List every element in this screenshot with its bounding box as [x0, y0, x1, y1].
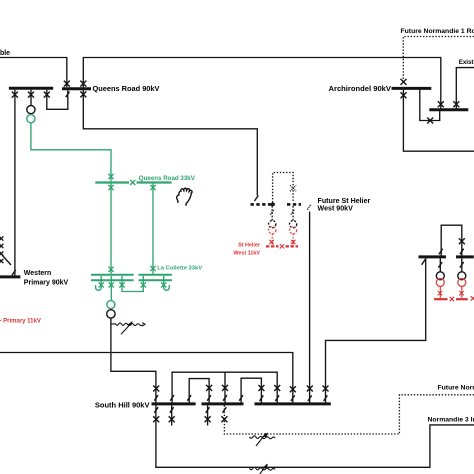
slash below right bus left end	[422, 259, 426, 265]
long wire L3 to South Hill seg3	[0, 353, 293, 403]
green feeder stub with hook left	[96, 276, 102, 290]
wire to transformer T1	[30, 90, 32, 106]
slash arch right leg	[460, 249, 464, 255]
slash above R1	[438, 262, 442, 268]
transformer R2 secondary red	[458, 278, 466, 286]
slash arch left leg	[439, 249, 443, 255]
svg-text:West 90kV: West 90kV	[318, 205, 354, 213]
dashed slash below StHW right leg	[291, 209, 295, 215]
busbar Archirondel 90kV bus1	[392, 87, 432, 90]
transformer T1 secondary circle 33kV	[27, 115, 35, 123]
busbar La Collette 33kV upper-right	[139, 274, 172, 276]
svg-text:Primary 90kV: Primary 90kV	[24, 279, 69, 286]
dashed transformer W2 secondary red	[290, 227, 297, 234]
breaker X Exist feeder	[453, 101, 459, 107]
breaker X above Archirondel bus	[401, 79, 407, 85]
red busbar St Helier West 11kV right (dashed)	[286, 245, 299, 247]
transformer R2 primary	[458, 272, 466, 280]
svg-text:Normandie 3 In: Normandie 3 In	[428, 417, 474, 424]
red X below R1	[438, 291, 442, 295]
breaker X below Archirondel bus1	[401, 92, 407, 98]
right 90kV busbar left section	[419, 255, 447, 258]
transformer T2 primary circle 33kV green	[107, 301, 115, 309]
dotted route Future Normandie 1	[403, 37, 474, 81]
breaker X green La Collette f4	[141, 282, 146, 287]
breaker X green La Collette f3	[119, 282, 124, 287]
wire green x153 down to La Collette	[152, 184, 154, 274]
South Hill arch B	[241, 378, 261, 402]
red busbar St Helier West 11kV left (dashed)	[266, 245, 279, 247]
disconnector slash above Western Primary bus	[12, 270, 16, 276]
St Helier West dotted arch	[273, 173, 294, 203]
dotted future route bottom	[224, 395, 474, 434]
stub below seg1 f2	[171, 405, 173, 425]
svg-text:West 11kV: West 11kV	[233, 250, 260, 256]
busbar South Hill seg2	[202, 402, 244, 405]
stub below seg2 f1	[207, 405, 209, 425]
squiggle annotation on Normandie 3 route	[250, 464, 276, 474]
dashed wires bus to W1/W2	[272, 206, 293, 221]
svg-text:South Hill 90kV: South Hill 90kV	[95, 400, 150, 409]
busbar South Hill seg3	[255, 402, 331, 405]
squiggle annotation on dotted route	[250, 432, 276, 446]
slash above R2	[460, 262, 464, 268]
wire Archirondel down then right to edge	[403, 90, 474, 152]
South Hill arch A	[189, 379, 209, 403]
busbar Future St Helier West 90kV dashed left section	[251, 203, 275, 206]
busbar Future St Helier West 90kV dashed right section	[287, 203, 301, 206]
svg-text:Western: Western	[24, 270, 52, 277]
svg-text:Future Normandie 1 Ro: Future Normandie 1 Ro	[401, 28, 474, 35]
X and slashes above South Hill buses	[153, 386, 159, 392]
svg-text:Archirondel 90kV: Archirondel 90kV	[329, 84, 392, 93]
green wire to transformer T2	[110, 276, 112, 301]
breaker X Queens left feeder C	[44, 92, 50, 98]
svg-text:Future Norm: Future Norm	[438, 385, 474, 392]
dashed X on arch right leg	[290, 185, 296, 191]
wire right bus to transformer R1	[439, 258, 441, 272]
wire Queens feeder A down to Western Primary	[14, 90, 16, 276]
wire Queens right feeder down to St Helier West	[83, 90, 257, 196]
breaker X green above bus at x111	[108, 174, 113, 179]
transformer T2 secondary circle 90kV black	[107, 310, 115, 318]
red x at right edge	[471, 296, 474, 300]
wire from left edge to Queens Road right bus feeder 1	[0, 58, 67, 88]
red bus-tie x	[280, 244, 284, 248]
red wire R1 to 11kV bus	[439, 287, 441, 298]
X below South Hill buses	[153, 416, 159, 422]
dashed transformer W2 primary	[290, 221, 297, 228]
edge element stacked X marks at left edge	[0, 236, 11, 265]
South Hill outer arch mid drop	[224, 372, 226, 402]
breaker X green La Collette f2	[109, 282, 114, 287]
breaker X green La Collette f1	[99, 282, 104, 287]
breaker X green bus-tie	[130, 180, 135, 185]
breaker X Queens left feeder B (transformer)	[28, 92, 34, 98]
breaker X below Queens right bus	[80, 91, 86, 97]
dashed slash at right end of StHW bus	[307, 204, 311, 210]
hand cursor icon	[175, 187, 192, 206]
transformer R1 primary	[436, 272, 444, 280]
wire right bus to transformer R2	[461, 258, 463, 272]
wire green x111 down to La Collette	[110, 184, 112, 274]
breaker X Queens left feeder A	[12, 92, 18, 98]
wire Normandie 3 route	[156, 405, 474, 467]
busbar Queens Road 33kV left	[95, 181, 129, 183]
breaker X green below bus x153	[150, 185, 155, 190]
wire StHW right end down to South Hill	[309, 212, 311, 403]
svg-text:Queens Road 90kV: Queens Road 90kV	[93, 84, 160, 93]
svg-text:St Helier: St Helier	[238, 243, 261, 249]
breaker X green above La Collette x111	[108, 267, 113, 272]
wire T2 down and over to South Hill seg1	[111, 318, 156, 402]
South Hill outer arch	[172, 372, 277, 402]
svg-text:Existing: Existing	[459, 59, 474, 66]
wire long top run to Archirondel bus2	[83, 58, 441, 109]
svg-text:Queens Road 33kV: Queens Road 33kV	[139, 175, 196, 182]
transformer T1 primary circle 90kV	[27, 106, 35, 114]
dashed slash below StHW left leg	[270, 209, 274, 215]
breaker X green La Collette f5	[161, 282, 166, 287]
arch coupler over right busbar	[441, 225, 462, 255]
green U loop between feeders	[122, 276, 143, 292]
svg-text:- Primary 11kV: - Primary 11kV	[0, 318, 41, 324]
slashes below South Hill buses	[154, 407, 158, 413]
breaker X above Queens right bus on long run	[80, 81, 86, 87]
svg-text:La Collette 33kV: La Collette 33kV	[157, 265, 202, 271]
wire green T1 to Queens Road 33kV bus	[31, 123, 111, 182]
busbar Queens Road 90kV right section	[62, 87, 91, 90]
red dashed wires below W1/W2	[272, 234, 293, 245]
busbar La Collette 33kV upper-left	[91, 274, 134, 276]
junction dot on StHW bus	[271, 203, 275, 207]
dashed transformer W1 primary	[269, 221, 276, 228]
red X below W1	[269, 240, 273, 244]
wire right bus to South Hill	[326, 258, 426, 402]
busbar Archirondel 90kV bus2	[429, 108, 468, 111]
right 90kV busbar right section	[456, 255, 474, 258]
breaker X green above La Collette x153	[150, 266, 155, 271]
red busbar right 11kV right	[456, 298, 468, 300]
red bus-tie x	[450, 297, 454, 301]
squiggle annotation near T2	[111, 321, 145, 334]
busbar Queens Road 33kV right	[137, 181, 172, 183]
busbar Western Primary 90kV	[0, 275, 20, 278]
busbar La Collette 33kV lower-right	[139, 279, 172, 281]
wire coupler bus1 to bus2	[420, 90, 440, 121]
breaker X feeder1 Queens Road right bus	[64, 81, 70, 87]
red wire R2 to 11kV bus	[461, 287, 463, 298]
disconnector slash above St Helier West bus	[255, 195, 259, 201]
red X below R2	[459, 291, 463, 295]
busbar La Collette 33kV lower-left	[91, 279, 134, 281]
wire Exist feeder	[456, 68, 474, 109]
breaker X on Archirondel bus2 left feeder	[438, 101, 444, 107]
svg-text:ible: ible	[0, 50, 10, 57]
busbar Queens Road 90kV left section	[9, 87, 53, 90]
green feeder stub with hook right	[164, 276, 170, 290]
dashed transformer W1 secondary red	[269, 227, 276, 234]
red X below W2	[291, 240, 295, 244]
transformer R1 secondary red	[436, 278, 444, 286]
wire U-loop joining Queens bus sections	[47, 90, 68, 110]
red busbar right 11kV left	[434, 298, 448, 300]
busbar South Hill seg1	[152, 402, 196, 405]
breaker X on arch right leg	[459, 238, 465, 244]
breaker X green below bus x111	[108, 185, 113, 190]
breaker X on coupler	[427, 118, 433, 124]
disconnector slash below Queens right bus	[66, 92, 70, 98]
